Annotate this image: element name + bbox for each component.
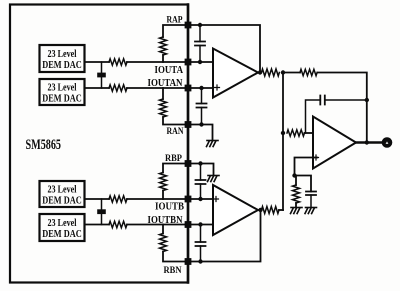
node C2 bottom on RAN	[199, 122, 203, 126]
node RAN pin	[185, 121, 192, 128]
resistor RBN-IOUTBN internal	[160, 234, 167, 252]
wire resistor to U3 - input	[305, 132, 319, 134]
node RAP pin	[185, 22, 192, 29]
resistor RAN-IOUTAN internal	[160, 99, 167, 117]
wire IOUTB from DAC3	[85, 198, 110, 200]
wire IOUTBN from DAC4	[85, 224, 110, 226]
ground under capacitor	[305, 208, 317, 214]
resistor U3 inverting input	[287, 130, 305, 136]
node IOUTA pin	[185, 59, 192, 66]
resistor U3 + to ground	[293, 185, 300, 203]
wire RAN to ground	[188, 125, 213, 141]
ground RBP	[208, 176, 220, 182]
capacitor across IOUTB/IOUTBN	[97, 199, 106, 225]
wire resistor to RAN pin	[163, 117, 188, 125]
capacitor C2 IOUTAN to RAN	[197, 88, 207, 125]
DAC box 4 (23 Level DEM DAC)	[40, 214, 85, 241]
node C4 bottom on RBN	[198, 259, 202, 263]
capacitor C4 IOUTBN to RBN	[196, 225, 206, 262]
op-amp U3	[313, 117, 356, 169]
node C4 top on IOUTBN	[198, 222, 202, 226]
resistor U2 output R	[262, 207, 280, 214]
DAC box 1 (23 Level DEM DAC)	[40, 45, 85, 72]
capacitor C5 feedback of U3	[306, 96, 367, 134]
resistor series IOUTAN	[109, 85, 127, 91]
capacitor C3 RBP to IOUTB	[196, 164, 206, 200]
wire RBP pin to internal resistor	[163, 164, 188, 173]
wire IOUTA from DAC1	[85, 61, 110, 63]
wire IOUTB to op-amp U2	[127, 198, 217, 200]
chip SM5865 outline	[10, 5, 188, 283]
node RBP pin	[185, 160, 192, 167]
node C3 top on RBP	[198, 161, 202, 165]
wire IOUTAN to op-amp U1	[127, 87, 217, 89]
node summing top	[281, 70, 285, 74]
node C3 bottom on IOUTB	[198, 197, 202, 201]
capacitor C1 RAP to IOUTA	[195, 25, 205, 62]
resistor U1 output R	[262, 69, 280, 76]
resistor series IOUTA	[109, 59, 127, 65]
wire IOUTAN from DAC2	[85, 87, 110, 89]
svg-text:RBP: RBP	[165, 154, 182, 164]
wire RAP feedback to U1 output	[188, 25, 260, 73]
node IOUTAN pin	[185, 85, 192, 92]
op-amp U2	[213, 185, 258, 235]
wire U3 output	[356, 141, 382, 144]
wire resistor to IOUTB	[162, 191, 164, 200]
wire RBN feedback to U2 output	[188, 210, 261, 262]
svg-text:RBN: RBN	[164, 266, 182, 276]
svg-text:SM5865: SM5865	[26, 137, 62, 153]
wire RAP pin to internal resistor	[163, 25, 188, 37]
DAC box 2 (23 Level DEM DAC)	[40, 79, 85, 105]
resistor series IOUTB	[109, 196, 127, 202]
node U1 output junction	[258, 70, 262, 74]
svg-text:DEM DAC: DEM DAC	[42, 195, 82, 207]
resistor RBP-IOUTB internal	[160, 173, 167, 191]
DAC box 3 (23 Level DEM DAC)	[40, 181, 85, 207]
wire summing node down to U2 output resistor	[282, 73, 284, 211]
svg-text:IOUTAN: IOUTAN	[148, 78, 183, 89]
node C1 bottom on IOUTA	[198, 60, 202, 64]
wire IOUTA to op-amp U1	[127, 61, 219, 63]
wire IOUTAN to internal RAN resistor	[162, 88, 164, 99]
node IOUTB pin	[185, 196, 192, 203]
wire resistor to RBN pin	[163, 252, 188, 262]
resistor RAP-IOUTA internal	[160, 37, 167, 55]
ground under resistor	[291, 208, 303, 214]
node IOUTBN pin	[185, 221, 192, 228]
wire RBP to ground	[188, 164, 214, 176]
wire resistor to IOUTA	[162, 55, 164, 62]
wire IOUTBN to op-amp U2	[127, 224, 219, 226]
resistor feedback U3	[300, 69, 317, 75]
wire chip right edge pin bus	[187, 5, 190, 283]
wire to summing node	[283, 72, 300, 74]
wire branch to resistor	[295, 176, 297, 186]
node feedback cap tap	[198, 23, 202, 27]
wire U3 + input	[295, 158, 318, 176]
node U3 output feedback junction	[365, 140, 369, 144]
node + input branch	[292, 173, 296, 177]
node C2 top on IOUTAN	[199, 86, 203, 90]
svg-text:DEM DAC: DEM DAC	[42, 59, 82, 71]
op-amp U1	[213, 49, 258, 98]
capacitor C6 + input to ground	[306, 192, 316, 208]
node C5 at output branch	[365, 98, 369, 102]
node U2 output junction	[258, 208, 262, 212]
output terminal	[382, 138, 391, 147]
node RBN pin	[185, 258, 192, 265]
svg-text:RAP: RAP	[167, 16, 183, 26]
svg-text:IOUTA: IOUTA	[155, 65, 184, 76]
wire U2 resistor to summing line	[279, 209, 283, 211]
wire resistor to ground	[295, 203, 297, 208]
wire feedback to U3 output	[318, 73, 367, 143]
node summing to U3 input	[281, 131, 285, 135]
svg-text:DEM DAC: DEM DAC	[42, 228, 82, 240]
wire branch to capacitor	[295, 176, 312, 192]
ground RAN	[207, 141, 219, 147]
capacitor across IOUTA/IOUTAN	[97, 62, 106, 88]
svg-text:DEM DAC: DEM DAC	[42, 93, 82, 105]
wire IOUTBN to internal RBN resistor	[162, 225, 164, 234]
resistor series IOUTBN	[109, 221, 127, 227]
svg-text:IOUTB: IOUTB	[155, 202, 184, 213]
svg-text:RAN: RAN	[167, 127, 184, 137]
svg-text:IOUTBN: IOUTBN	[148, 215, 183, 226]
